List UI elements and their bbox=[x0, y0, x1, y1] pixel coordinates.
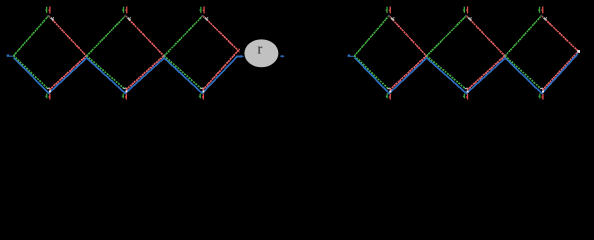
svg-text:r: r bbox=[257, 41, 262, 57]
